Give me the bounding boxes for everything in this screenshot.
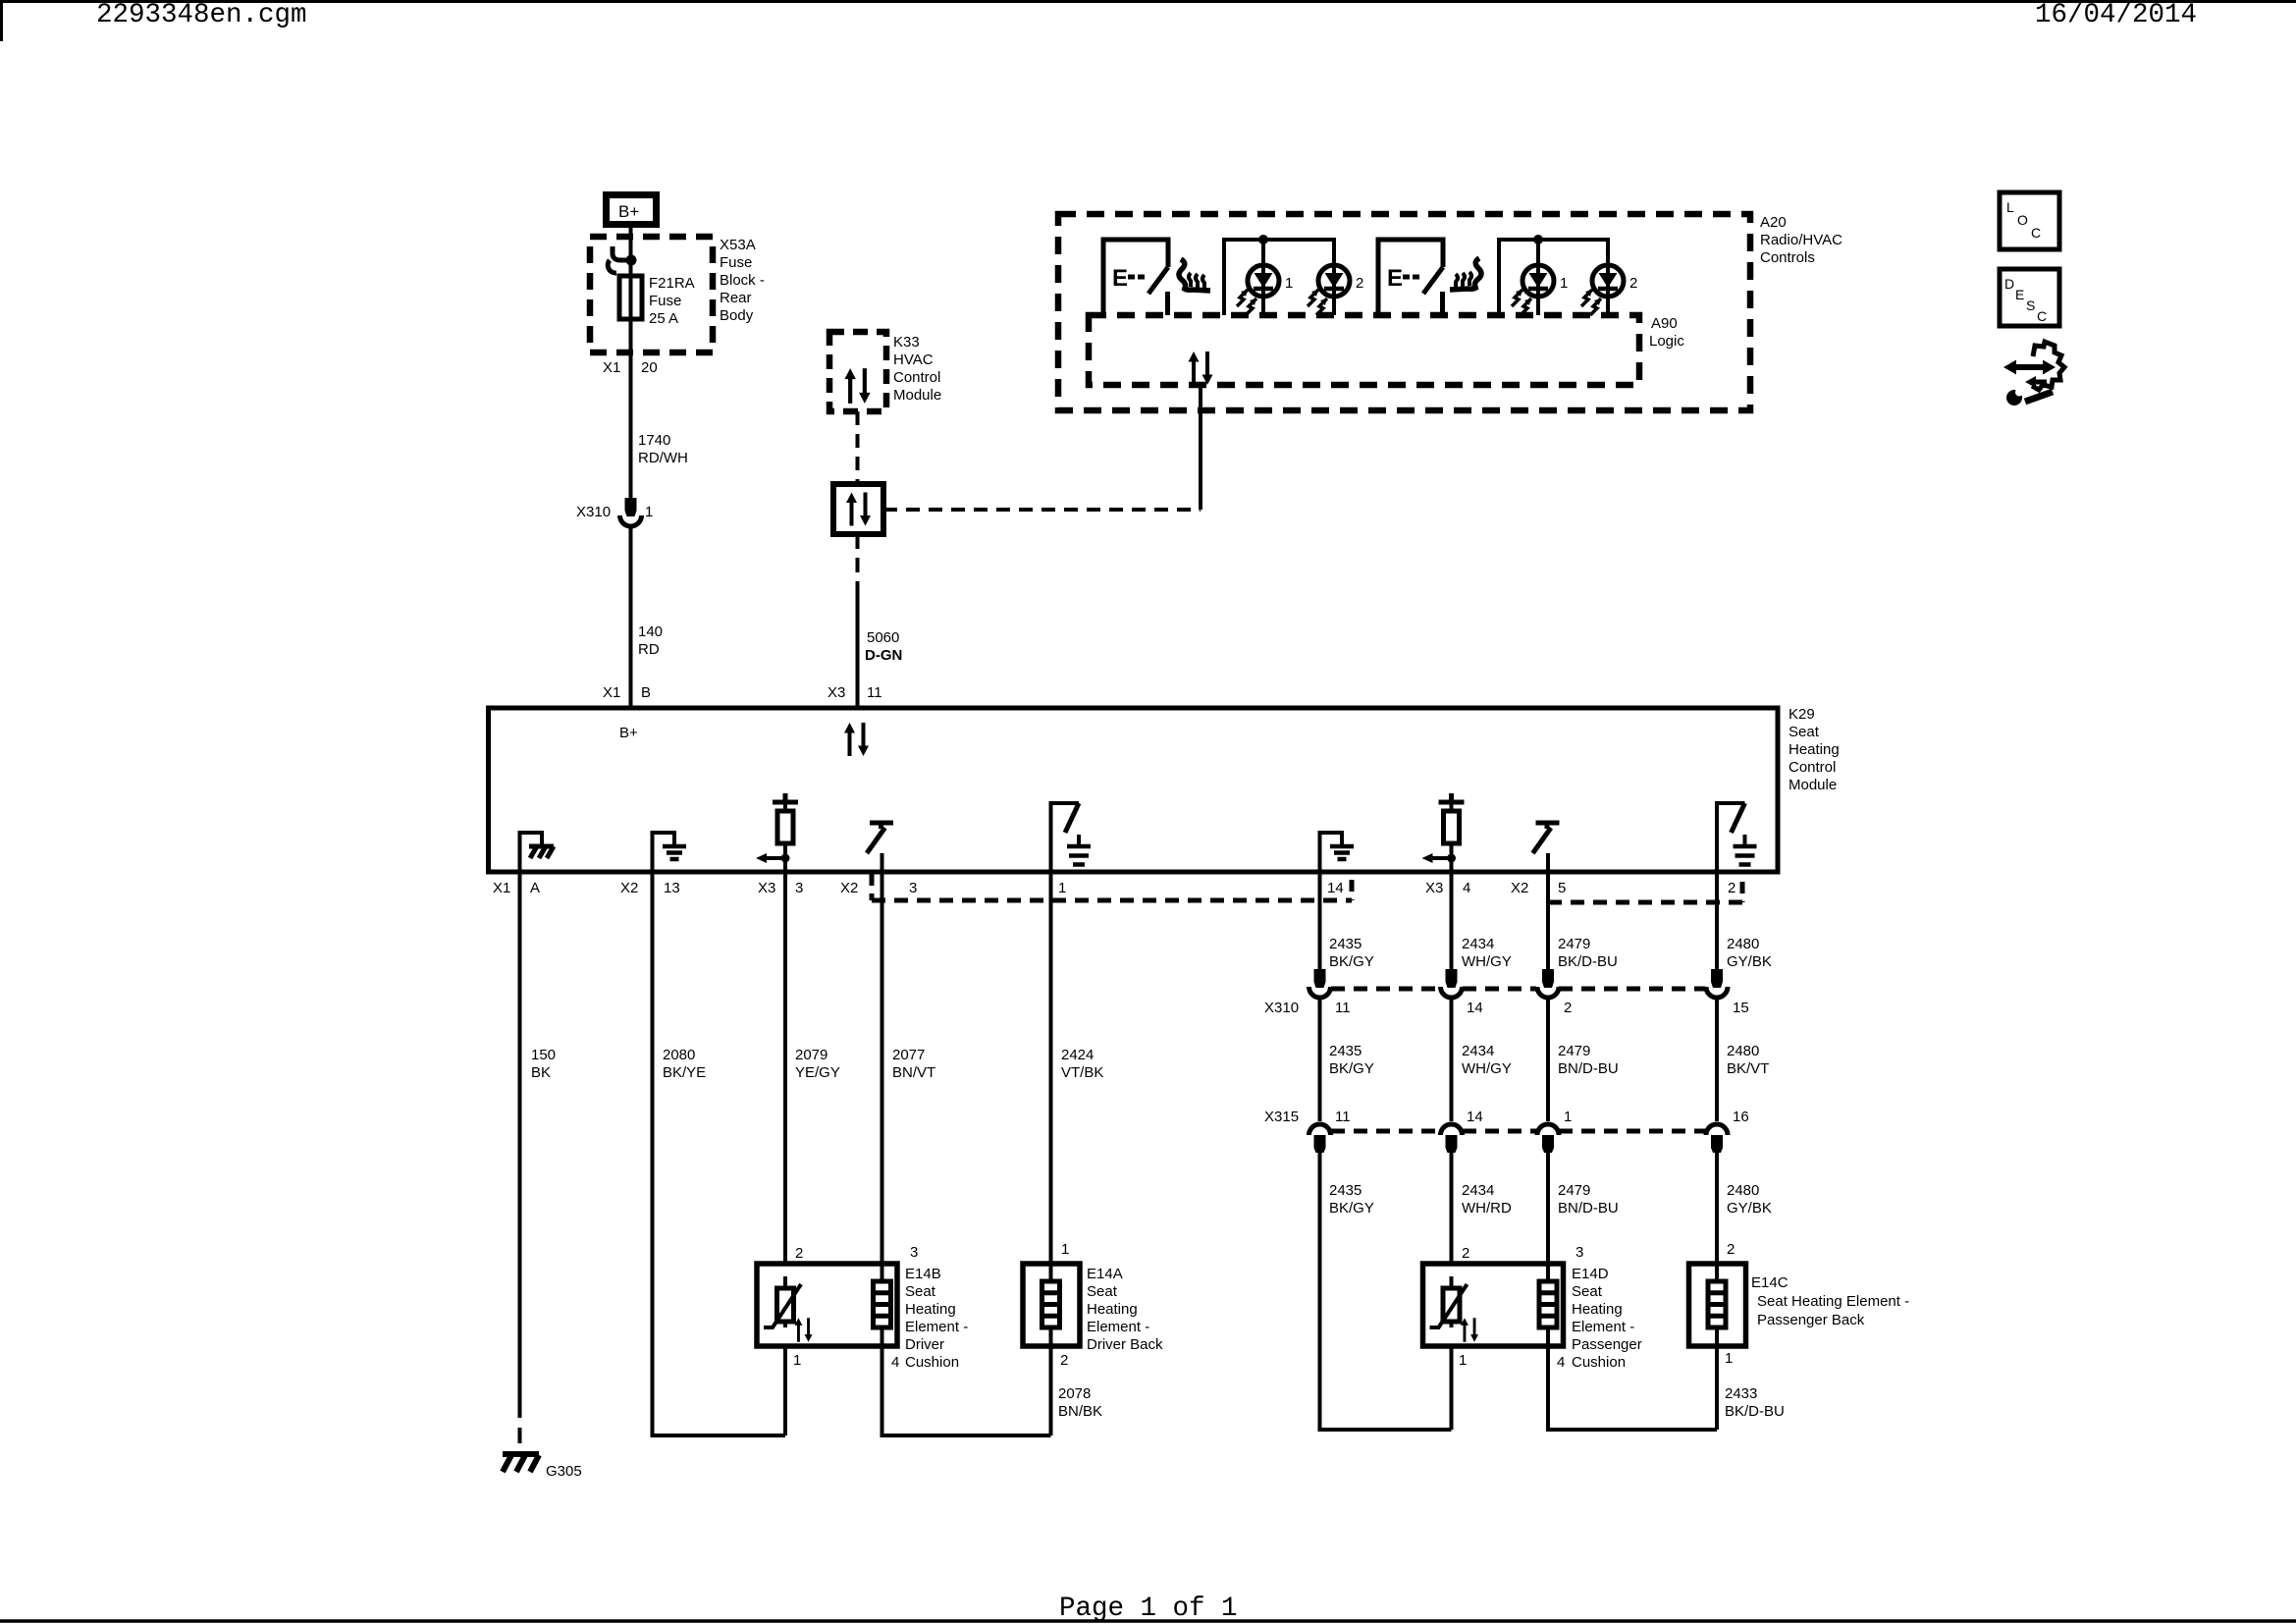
connector X315 pin 1 [1537,1124,1559,1153]
wire 5060 D-GN [856,593,860,708]
svg-text:1: 1 [1285,275,1293,292]
svg-text:20: 20 [641,359,658,376]
svg-text:4: 4 [1557,1354,1565,1371]
svg-text:E14A: E14A [1087,1266,1123,1282]
switch S1 driver heated seat switch [1103,240,1168,315]
svg-text:RD/WH: RD/WH [638,450,688,466]
svg-text:X2: X2 [1511,880,1528,896]
bottom border line [0,1619,2296,1623]
svg-text:Seat: Seat [1572,1283,1603,1300]
ground G305 chassis [503,1454,539,1472]
svg-text:2: 2 [1462,1245,1469,1262]
svg-text:Seat: Seat [1789,724,1820,740]
svg-text:2078: 2078 [1058,1385,1091,1402]
svg-text:2: 2 [1564,1000,1572,1016]
legend icon double arrow with wrench [2003,342,2064,406]
svg-text:BK/D-BU: BK/D-BU [1558,953,1618,970]
svg-text:2: 2 [1060,1352,1068,1369]
svg-text:1: 1 [1061,1241,1069,1258]
svg-text:3: 3 [909,880,917,896]
seat heating icon passenger [1450,258,1481,290]
wire 150 BK dashed end [518,1402,522,1452]
DESC legend box [2000,269,2059,326]
dashed option stub pin 14 [1350,880,1355,900]
E14B seat heating element driver cushion box [757,1264,897,1346]
connector X315 pin 11 [1309,1124,1331,1153]
wire 2077 BN/VT [881,874,884,1264]
svg-text:Control: Control [893,369,940,386]
svg-text:Block -: Block - [720,272,765,289]
svg-text:B: B [641,684,651,701]
wire 2080 BK/YE [653,874,786,1435]
E14B heating element [874,1264,891,1346]
svg-text:X2: X2 [620,880,638,896]
svg-text:14: 14 [1467,1000,1483,1016]
svg-text:5: 5 [1558,880,1566,896]
wire 2433 BK/D-BU [1548,1346,1717,1430]
wire 150 BK [518,874,522,1402]
svg-text:BN/BK: BN/BK [1058,1403,1102,1420]
E14A heating element [1042,1264,1060,1346]
svg-text:1: 1 [1560,275,1568,292]
wire 2480 BK/VT middle [1715,998,1719,1121]
svg-text:C: C [2037,308,2047,324]
svg-text:BN/D-BU: BN/D-BU [1558,1200,1619,1217]
svg-text:Passenger Back: Passenger Back [1757,1312,1865,1328]
svg-text:BK: BK [531,1064,551,1081]
svg-text:4: 4 [891,1354,899,1371]
svg-text:Driver Back: Driver Back [1087,1336,1163,1353]
svg-text:Control: Control [1789,759,1836,776]
connector X310 dashed body [1331,987,1705,992]
svg-text:Module: Module [1789,777,1837,793]
svg-text:X1: X1 [603,684,620,701]
svg-text:Element -: Element - [905,1319,968,1335]
svg-text:2480: 2480 [1727,1182,1759,1199]
svg-text:2433: 2433 [1725,1385,1757,1402]
svg-text:D-GN: D-GN [865,647,902,664]
svg-text:2: 2 [795,1245,803,1262]
E14B thermistor arrows [795,1318,813,1341]
svg-text:BK/D-BU: BK/D-BU [1725,1403,1785,1420]
svg-text:B+: B+ [618,202,639,221]
gateway arrows [846,493,871,526]
svg-text:X1: X1 [493,880,510,896]
fuse block X53A dashed box [590,237,713,352]
svg-text:11: 11 [1335,1000,1351,1016]
svg-text:S: S [2026,298,2035,313]
E14D seat heating element passenger cushion box [1423,1264,1564,1346]
svg-text:E14D: E14D [1572,1266,1609,1282]
svg-text:1: 1 [1725,1350,1733,1367]
A20 radio/HVAC controls dashed box [1058,214,1750,410]
svg-text:A20: A20 [1760,214,1787,231]
dashed wire gateway to A20 [883,508,1201,512]
svg-text:VT/BK: VT/BK [1061,1064,1103,1081]
svg-text:1: 1 [1564,1109,1572,1125]
svg-text:Fuse: Fuse [720,254,752,271]
svg-text:14: 14 [1467,1109,1483,1125]
LED group passenger [1499,235,1608,315]
svg-text:2434: 2434 [1462,936,1494,952]
svg-text:2: 2 [1728,880,1735,896]
svg-text:HVAC: HVAC [893,352,934,368]
svg-text:Page 1 of 1: Page 1 of 1 [1059,1594,1238,1624]
svg-text:Seat: Seat [905,1283,936,1300]
LED 2 passenger [1581,265,1624,315]
svg-text:K33: K33 [893,334,920,351]
svg-text:X3: X3 [1425,880,1443,896]
E14D thermistor [1430,1276,1468,1327]
svg-text:O: O [2017,212,2028,228]
E14D heating element [1539,1264,1557,1346]
svg-text:Element -: Element - [1087,1319,1149,1335]
E14A seat heating element driver back box [1023,1264,1080,1346]
wire 2435 BK/GY middle [1318,998,1322,1121]
svg-text:Module: Module [893,387,941,404]
svg-text:3: 3 [795,880,803,896]
svg-text:YE/GY: YE/GY [795,1064,840,1081]
svg-text:E14B: E14B [905,1266,941,1282]
svg-text:3: 3 [910,1244,918,1261]
A90 serial data arrows [1189,352,1213,385]
LED group driver [1224,235,1334,315]
svg-text:2479: 2479 [1558,1043,1590,1059]
svg-text:X2: X2 [840,880,858,896]
svg-text:Body: Body [720,307,754,324]
svg-text:140: 140 [638,623,663,640]
svg-text:F21RA: F21RA [649,275,695,292]
fuse block terminal clip [613,246,631,260]
fuse F21RA [619,276,642,319]
pin X2 13 hook with earth ground [653,833,687,870]
wire E14B pin 1 [783,1346,787,1435]
dashed wire K33 to gateway [856,411,860,484]
pin X2 3 switch [867,823,893,872]
svg-text:X310: X310 [576,504,611,520]
svg-text:E: E [1112,265,1128,292]
svg-text:2435: 2435 [1329,1182,1362,1199]
svg-text:1: 1 [1459,1352,1467,1369]
wire 2434 WH/RD lower [1450,1151,1454,1264]
svg-text:Rear: Rear [720,290,752,306]
wire A90 to gateway dashed junction [1199,385,1202,510]
svg-text:BK/YE: BK/YE [663,1064,706,1081]
svg-text:1: 1 [1058,880,1066,896]
K33 serial data arrows [844,368,870,404]
svg-text:Fuse: Fuse [649,293,681,309]
connector X310 pin 11 [1309,969,1331,998]
svg-text:1: 1 [793,1352,801,1369]
wire 2078 BN/BK [882,1346,1051,1435]
svg-text:2479: 2479 [1558,1182,1590,1199]
svg-text:X3: X3 [828,684,845,701]
E14C seat heating element passenger back box [1689,1264,1746,1346]
dashed option wire X2 5 to pin 2 [1548,900,1742,905]
svg-text:2434: 2434 [1462,1182,1494,1199]
connector X310 pin 1 [620,498,642,526]
svg-text:K29: K29 [1789,706,1815,723]
A90 logic dashed box [1089,315,1639,385]
E14B thermistor [764,1276,801,1327]
E14C heating element [1708,1264,1726,1346]
svg-text:Radio/HVAC: Radio/HVAC [1760,232,1842,248]
wire 2480 GY/BK upper [1715,874,1719,969]
dashed option wire X2 3 to pin 14 [872,898,1352,903]
svg-text:16/04/2014: 16/04/2014 [2035,0,2197,30]
svg-text:11: 11 [1335,1109,1351,1125]
LED 2 driver [1308,265,1350,315]
svg-text:2080: 2080 [663,1047,695,1063]
svg-text:2435: 2435 [1329,1043,1362,1059]
pin 1 switch to ground [1051,803,1092,872]
svg-text:2: 2 [1629,275,1637,292]
wire E14C pin 1 [1715,1346,1719,1430]
pin 14 hook with earth ground [1320,833,1355,870]
svg-text:C: C [2031,225,2041,241]
wire E14D pin 1 [1450,1346,1454,1430]
svg-text:2480: 2480 [1727,936,1759,952]
svg-text:X53A: X53A [720,237,756,253]
B+ battery feed box [607,195,657,225]
svg-text:GY/BK: GY/BK [1727,1200,1772,1217]
svg-text:RD: RD [638,641,660,658]
svg-text:2479: 2479 [1558,936,1590,952]
wire 2435 BK/GY upper [1318,874,1322,969]
svg-text:Seat Heating Element -: Seat Heating Element - [1757,1293,1909,1310]
serial data gateway box [833,484,883,534]
svg-text:X310: X310 [1264,1000,1299,1016]
K29 seat heating control module box [489,708,1779,872]
pin 2 switch to ground [1717,803,1757,872]
wire 2424 VT/BK [1049,874,1053,1264]
svg-text:1: 1 [645,504,653,520]
pin X3 4 temperature sensor potentiometer [1422,793,1465,872]
connector X310 pin 2 [1537,969,1559,998]
svg-text:Controls: Controls [1760,249,1815,266]
connector X315 dashed body [1331,1129,1705,1134]
svg-text:D: D [2004,276,2014,292]
wire 2079 YE/GY [783,874,787,1264]
svg-text:150: 150 [531,1047,556,1063]
svg-text:3: 3 [1575,1244,1583,1261]
wire 2479 BK/D-BU upper [1546,874,1550,969]
dashed option stub pin 2 [1740,882,1745,902]
svg-text:2434: 2434 [1462,1043,1494,1059]
svg-text:4: 4 [1463,880,1470,896]
svg-text:2424: 2424 [1061,1047,1094,1063]
pin X1 A hook with chassis ground [520,833,555,870]
wire 2480 GY/BK lower [1715,1151,1719,1264]
dashed option stub X2 3 [870,874,875,900]
svg-text:11: 11 [867,684,882,701]
E14D thermistor arrows [1461,1318,1478,1341]
svg-text:2: 2 [1356,275,1363,292]
svg-text:Logic: Logic [1649,333,1684,350]
svg-text:BN/D-BU: BN/D-BU [1558,1060,1619,1077]
svg-text:Heating: Heating [1572,1301,1623,1318]
wire 2435 BK/GY lower [1320,1151,1452,1430]
top border line [0,0,2296,3]
svg-text:BK/VT: BK/VT [1727,1060,1769,1077]
svg-text:16: 16 [1733,1109,1749,1125]
wire 2434 WH/GY upper [1450,874,1454,969]
svg-text:15: 15 [1733,1000,1749,1016]
svg-text:2077: 2077 [892,1047,925,1063]
svg-text:Heating: Heating [1789,741,1840,758]
svg-text:Driver: Driver [905,1336,944,1353]
svg-text:A: A [530,880,540,896]
svg-text:25 A: 25 A [649,310,678,327]
svg-text:14: 14 [1327,880,1344,896]
svg-text:Passenger: Passenger [1572,1336,1642,1353]
svg-text:E: E [1387,265,1403,292]
seat heating icon driver [1179,259,1210,291]
svg-text:G305: G305 [546,1463,582,1480]
svg-text:Cushion: Cushion [905,1354,959,1371]
svg-text:BN/VT: BN/VT [892,1064,935,1081]
svg-text:WH/GY: WH/GY [1462,1060,1512,1077]
svg-text:2079: 2079 [795,1047,828,1063]
svg-text:BK/GY: BK/GY [1329,1060,1374,1077]
connector X310 pin 15 [1706,969,1728,998]
svg-text:BK/GY: BK/GY [1329,953,1374,970]
svg-text:A90: A90 [1651,315,1678,332]
svg-text:1740: 1740 [638,432,670,449]
LED 1 driver [1237,265,1279,315]
svg-text:5060: 5060 [867,629,899,646]
svg-text:E: E [2015,287,2024,302]
svg-text:2: 2 [1727,1241,1735,1258]
connector X315 pin 16 [1706,1124,1728,1153]
svg-text:Cushion: Cushion [1572,1354,1626,1371]
K33 HVAC control module dashed box [829,332,886,411]
svg-text:X315: X315 [1264,1109,1299,1125]
svg-text:WH/RD: WH/RD [1462,1200,1512,1217]
wire 2479 BN/D-BU middle [1546,998,1550,1121]
svg-text:WH/GY: WH/GY [1462,953,1512,970]
K29 serial data arrows [844,723,869,756]
dashed wire below gateway [856,534,860,593]
wire 140 RD [629,526,633,708]
pin X2 5 switch [1533,823,1560,872]
svg-text:GY/BK: GY/BK [1727,953,1772,970]
wire 2479 BN/D-BU lower [1546,1151,1550,1264]
wire E14A pin 2 [1049,1346,1053,1435]
switch S2 passenger heated seat switch [1378,240,1443,315]
svg-text:Element -: Element - [1572,1319,1634,1335]
wire 2434 WH/GY middle [1450,998,1454,1121]
connector X315 pin 14 [1441,1124,1463,1153]
LOC legend box [2000,192,2059,249]
svg-text:L: L [2006,199,2014,215]
svg-text:2293348en.cgm: 2293348en.cgm [96,0,307,30]
svg-text:X1: X1 [603,359,620,376]
connector X310 pin 14 [1441,969,1463,998]
svg-text:Heating: Heating [1087,1301,1138,1318]
svg-text:13: 13 [664,880,680,896]
svg-text:E14C: E14C [1751,1274,1789,1291]
wire B+ to fuse [629,228,633,499]
svg-text:B+: B+ [619,725,638,741]
svg-text:Heating: Heating [905,1301,956,1318]
svg-text:X3: X3 [758,880,775,896]
svg-text:BK/GY: BK/GY [1329,1200,1374,1217]
LED 1 passenger [1512,265,1554,315]
svg-text:2480: 2480 [1727,1043,1759,1059]
svg-text:2435: 2435 [1329,936,1362,952]
left border tick [0,0,3,41]
pin X3 3 temperature sensor potentiometer [756,793,798,872]
svg-text:Seat: Seat [1087,1283,1118,1300]
